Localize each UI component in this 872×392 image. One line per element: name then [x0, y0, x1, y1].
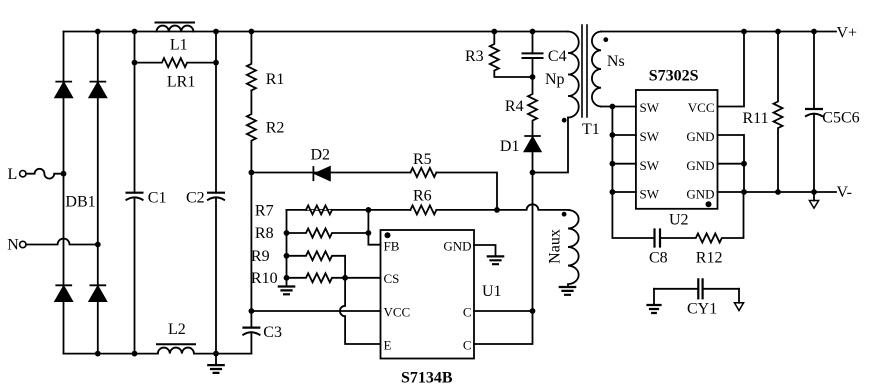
- wire node to E with hop over VCC line: [340, 278, 381, 344]
- phase dot Ns: [603, 37, 608, 42]
- wire D1 column down to C pins: [532, 173, 534, 312]
- wire N with hop over column1: [26, 239, 98, 245]
- open ground V-: [813, 192, 815, 201]
- terminal N: [20, 241, 26, 247]
- capacitor CY1: [654, 288, 739, 290]
- svg-text:R10: R10: [251, 270, 278, 287]
- T1 core: [582, 25, 587, 117]
- wire R8 to FB: [368, 210, 380, 245]
- resistor R1: [247, 32, 256, 91]
- svg-text:C1: C1: [148, 189, 167, 206]
- wire left column 2: [97, 32, 99, 354]
- svg-text:C: C: [463, 337, 472, 352]
- phase dot Np: [562, 118, 567, 123]
- wire U1 GND pin: [474, 245, 496, 256]
- svg-text:LR1: LR1: [167, 73, 195, 90]
- svg-text:DB1: DB1: [65, 193, 95, 210]
- wire drain node to Np bottom: [533, 118, 569, 173]
- wire left column 1: [63, 32, 65, 354]
- winding Naux: [568, 210, 579, 287]
- svg-text:R2: R2: [266, 119, 285, 136]
- svg-text:N: N: [7, 237, 19, 254]
- pin1 dot U1: [385, 232, 391, 238]
- diode DB1 top-right: [89, 82, 106, 98]
- svg-text:R7: R7: [255, 202, 274, 219]
- transformer T1 primary Np: [568, 32, 579, 118]
- resistor LR1: [135, 58, 217, 67]
- svg-text:R4: R4: [505, 98, 524, 115]
- wire U1 C pin lower: [474, 311, 533, 344]
- svg-text:Ns: Ns: [607, 53, 625, 70]
- wire V- rail: [718, 191, 837, 193]
- fuse at L input: [26, 169, 64, 179]
- wire top rail left: [64, 31, 568, 33]
- phase dot Naux: [562, 212, 567, 217]
- svg-text:SW: SW: [640, 129, 660, 144]
- svg-text:VCC: VCC: [688, 100, 715, 115]
- ground below R10 left: [279, 287, 294, 295]
- capacitor C1: [127, 192, 143, 194]
- svg-text:D1: D1: [500, 138, 520, 155]
- diode DB1 top-left: [55, 82, 72, 98]
- svg-text:SW: SW: [640, 158, 660, 173]
- svg-text:S7302S: S7302S: [649, 68, 699, 85]
- diode D2: [313, 167, 330, 180]
- capacitor C5C6: [813, 32, 815, 193]
- resistor R12: [660, 192, 744, 243]
- wire U1 C pin upper: [474, 310, 533, 312]
- wire bottom bus: [64, 353, 252, 355]
- capacitor C4: [532, 32, 534, 78]
- svg-text:R8: R8: [255, 225, 274, 242]
- svg-text:C8: C8: [649, 249, 668, 266]
- svg-text:V-: V-: [837, 184, 852, 201]
- wire D2 R5 row: [251, 173, 497, 210]
- resistor R6: [410, 205, 436, 214]
- svg-text:SW: SW: [640, 186, 660, 201]
- svg-text:D2: D2: [311, 146, 331, 163]
- svg-text:R5: R5: [413, 151, 432, 168]
- svg-text:L: L: [8, 166, 18, 183]
- wire D1 to drain node: [532, 151, 534, 172]
- svg-text:R11: R11: [743, 110, 769, 127]
- terminal L: [20, 171, 26, 177]
- svg-text:R12: R12: [696, 249, 723, 266]
- resistor R9: [287, 251, 346, 260]
- wire R7-R10 left vertical: [286, 210, 288, 287]
- svg-text:FB: FB: [384, 238, 400, 253]
- svg-text:V+: V+: [837, 24, 858, 41]
- svg-text:C4: C4: [548, 48, 567, 65]
- svg-text:C2: C2: [186, 189, 205, 206]
- capacitor C2: [208, 192, 224, 194]
- svg-text:Naux: Naux: [547, 229, 564, 264]
- resistor R10: [287, 273, 346, 282]
- resistor R3: [490, 32, 533, 78]
- svg-text:R3: R3: [465, 48, 484, 65]
- resistor R7: [306, 205, 332, 214]
- svg-text:S7134B: S7134B: [401, 369, 453, 386]
- svg-text:CY1: CY1: [687, 301, 717, 318]
- ground left of CY1: [653, 289, 655, 305]
- diode DB1 bottom-right: [89, 285, 106, 301]
- wire C1 column: [134, 32, 136, 354]
- wire C2 column: [215, 32, 217, 354]
- svg-text:CS: CS: [384, 271, 400, 286]
- svg-text:VCC: VCC: [384, 304, 411, 319]
- svg-text:U1: U1: [482, 283, 502, 300]
- wire VCC row: [251, 173, 380, 312]
- wire U2 GND2 GND3 to V-: [718, 135, 745, 192]
- IC U2 box: [636, 90, 718, 209]
- resistor R2: [247, 90, 256, 172]
- svg-text:GND: GND: [443, 238, 471, 253]
- svg-text:U2: U2: [669, 212, 689, 229]
- capacitor C8: [655, 230, 661, 247]
- wire CS pin: [345, 277, 380, 279]
- svg-text:Np: Np: [545, 71, 565, 88]
- svg-text:SW: SW: [640, 100, 660, 115]
- IC U1 box: [381, 230, 475, 359]
- inductor L1: [156, 22, 195, 24]
- svg-text:T1: T1: [582, 121, 600, 138]
- ground below C2: [215, 354, 217, 366]
- capacitor C3: [250, 311, 252, 354]
- svg-text:C3: C3: [263, 324, 282, 341]
- pin1 dot U2: [706, 201, 712, 207]
- resistor R11: [774, 32, 783, 193]
- ground below U1 GND: [488, 256, 503, 264]
- resistor R5: [410, 168, 436, 177]
- diode D1: [525, 136, 541, 151]
- wire SW pin stubs: [612, 135, 636, 192]
- svg-text:GND: GND: [686, 129, 714, 144]
- wire SW vertical: [612, 107, 654, 239]
- wire V+ rail: [601, 31, 836, 33]
- svg-text:C5C6: C5C6: [822, 110, 859, 127]
- svg-text:C: C: [463, 304, 472, 319]
- svg-text:L2: L2: [168, 321, 186, 338]
- transformer T1 secondary Ns: [592, 32, 601, 107]
- diode DB1 bottom-left: [55, 285, 72, 301]
- wire R6/R7 row with hop over D1 column: [287, 204, 569, 210]
- resistor R8: [287, 229, 369, 238]
- svg-text:R6: R6: [413, 188, 432, 205]
- inductor L2: [157, 343, 195, 345]
- svg-text:GND: GND: [686, 158, 714, 173]
- wire R9 to CS node: [344, 256, 346, 278]
- svg-text:R1: R1: [266, 71, 285, 88]
- svg-text:L1: L1: [170, 36, 188, 53]
- wire Ns bottom to SW pins: [601, 106, 636, 108]
- ground below Naux: [560, 287, 575, 295]
- resistor R4: [528, 77, 537, 136]
- svg-text:R9: R9: [251, 248, 270, 265]
- wire U2 VCC to V+: [718, 32, 745, 107]
- open ground right of CY1: [738, 289, 740, 303]
- svg-text:E: E: [384, 337, 392, 352]
- svg-text:GND: GND: [686, 186, 714, 201]
